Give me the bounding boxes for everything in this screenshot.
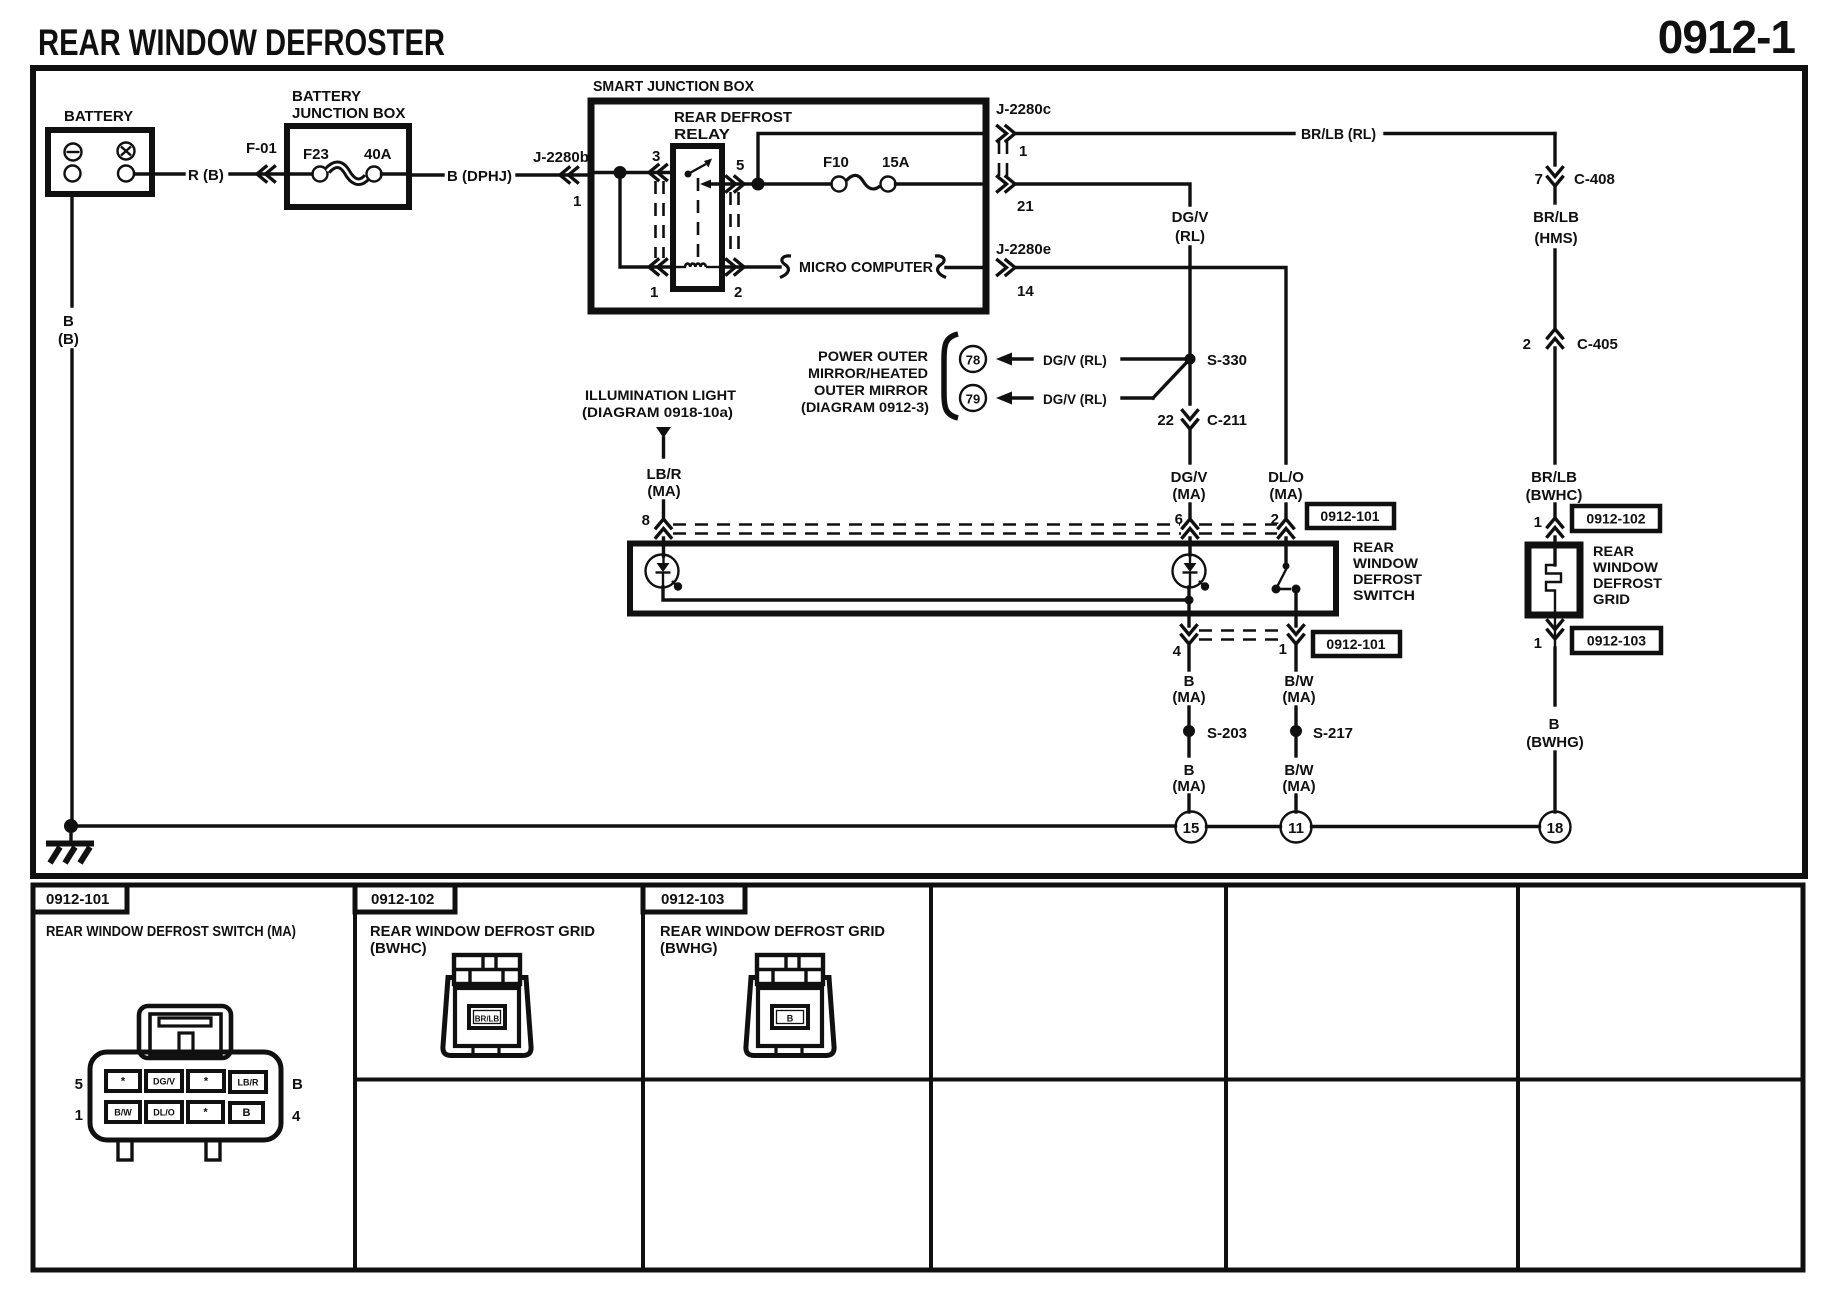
svg-text:1: 1: [1019, 143, 1027, 160]
terminal 79: [960, 385, 986, 411]
svg-text:J-2280e: J-2280e: [996, 241, 1051, 258]
svg-text:B/W: B/W: [1284, 673, 1314, 690]
wire battery positive to R (B): [135, 172, 185, 175]
connector C-405 pin 2: [1548, 329, 1563, 348]
switch pin 6: [1183, 519, 1198, 538]
svg-text:(MA): (MA): [1282, 689, 1315, 706]
reference tag 0912-101 bottom: [1313, 632, 1400, 656]
svg-text:15: 15: [1183, 820, 1200, 837]
svg-text:(RL): (RL): [1175, 228, 1205, 245]
svg-text:B/W: B/W: [1284, 762, 1314, 779]
connector table frame: [33, 885, 1803, 1270]
svg-text:POWER OUTER: POWER OUTER: [818, 349, 928, 364]
svg-text:B: B: [63, 313, 74, 330]
junction node: [614, 166, 627, 179]
svg-text:F23: F23: [303, 146, 329, 163]
svg-text:S-330: S-330: [1207, 352, 1247, 369]
connector drawing 0912-102 grid BWHC: [443, 978, 531, 1056]
wire pin5 to fuse F10: [758, 182, 831, 185]
svg-text:1: 1: [573, 193, 581, 210]
wire DL/O from J-2280e: [1015, 268, 1286, 464]
lamp1 wire to bus: [663, 587, 1189, 600]
svg-text:C-408: C-408: [1574, 171, 1615, 188]
svg-text:GRID: GRID: [1593, 592, 1630, 607]
svg-text:REAR: REAR: [1593, 544, 1634, 559]
svg-text:0912-103: 0912-103: [1587, 633, 1646, 649]
svg-text:1: 1: [1534, 635, 1542, 652]
svg-text:0912-101: 0912-101: [1320, 508, 1379, 524]
reference tag 0912-103: [1572, 628, 1661, 653]
table tag 0912-101: [33, 885, 127, 912]
wire DG/V (MA): [1188, 429, 1191, 463]
svg-text:DEFROST: DEFROST: [1593, 576, 1663, 591]
svg-text:0912-102: 0912-102: [371, 891, 434, 908]
svg-text:S-217: S-217: [1313, 725, 1353, 742]
connector drawing 0912-101 switch: [90, 1006, 281, 1160]
svg-text:(MA): (MA): [1269, 486, 1302, 503]
svg-text:DEFROST: DEFROST: [1353, 572, 1423, 587]
wire B (DPHJ) to smart junction box: [409, 173, 443, 176]
rear window defrost switch box: [630, 544, 1336, 614]
wire BR/LB (BWHC): [1553, 348, 1556, 463]
svg-text:J-2280b: J-2280b: [533, 149, 589, 166]
relay dashed actuator link: [697, 178, 700, 262]
svg-text:REAR WINDOW DEFROST GRID: REAR WINDOW DEFROST GRID: [370, 923, 595, 940]
svg-text:5: 5: [736, 157, 744, 174]
wire SJB entry to relay pin 3: [591, 171, 673, 174]
svg-text:F10: F10: [823, 154, 849, 171]
svg-text:B: B: [292, 1076, 303, 1093]
svg-text:*: *: [204, 1076, 209, 1088]
svg-text:21: 21: [1017, 198, 1034, 215]
svg-text:MIRROR/HEATED: MIRROR/HEATED: [808, 366, 928, 381]
wire B (BWHG): [1553, 648, 1556, 705]
ground junction: [64, 819, 78, 833]
svg-text:REAR DEFROST: REAR DEFROST: [674, 109, 792, 126]
pin 5: [722, 182, 758, 185]
pin 1: [649, 260, 667, 275]
svg-text:(BWHC): (BWHC): [370, 940, 427, 957]
svg-text:J-2280c: J-2280c: [996, 101, 1051, 118]
svg-text:LB/R: LB/R: [238, 1078, 259, 1088]
svg-text:F-01: F-01: [246, 140, 277, 157]
table tag 0912-102: [355, 885, 455, 912]
svg-text:8: 8: [642, 512, 650, 529]
connector dashes pin3-pin1: [656, 181, 664, 258]
relay switch contact: [685, 171, 692, 178]
svg-text:1: 1: [1534, 514, 1542, 531]
splice S-330: [1185, 354, 1196, 365]
svg-text:BATTERY: BATTERY: [64, 108, 133, 125]
svg-text:REAR WINDOW DEFROST GRID: REAR WINDOW DEFROST GRID: [660, 923, 885, 940]
svg-text:R (B): R (B): [188, 167, 224, 184]
connector dashes pin5-pin2: [731, 192, 739, 258]
svg-text:79: 79: [966, 392, 980, 407]
svg-text:OUTER MIRROR: OUTER MIRROR: [814, 383, 928, 398]
wire to J-2280c branch: [752, 178, 765, 191]
svg-text:(BWHG): (BWHG): [660, 940, 717, 957]
bracket: [944, 334, 958, 418]
pin cavity DL/O: [146, 1102, 182, 1122]
splice S-203: [1183, 725, 1195, 737]
svg-text:MICRO COMPUTER: MICRO COMPUTER: [799, 259, 933, 276]
svg-text:78: 78: [966, 353, 980, 368]
svg-text:0912-102: 0912-102: [1586, 511, 1645, 527]
svg-text:(BWHC): (BWHC): [1526, 487, 1583, 504]
micro computer: [780, 256, 791, 278]
svg-text:WINDOW: WINDOW: [1353, 556, 1418, 571]
defrost switch contact: [1283, 563, 1290, 570]
ground terminal 11: [1281, 812, 1312, 843]
pin cavity LB/R: [230, 1072, 266, 1092]
svg-text:B (DPHJ): B (DPHJ): [447, 168, 512, 185]
svg-text:REAR WINDOW DEFROST SWITCH (MA: REAR WINDOW DEFROST SWITCH (MA): [46, 923, 296, 940]
svg-text:RELAY: RELAY: [674, 126, 730, 143]
arrow 78: [996, 353, 1012, 366]
svg-text:DG/V: DG/V: [1171, 469, 1208, 486]
svg-text:B: B: [243, 1107, 251, 1119]
svg-text:LB/R: LB/R: [647, 466, 682, 483]
svg-text:(MA): (MA): [1172, 486, 1205, 503]
pin cavity B: [230, 1103, 263, 1122]
svg-text:C-211: C-211: [1207, 412, 1247, 429]
svg-text:18: 18: [1547, 820, 1564, 837]
svg-text:11: 11: [1288, 820, 1304, 837]
switch pin 2: [1279, 519, 1294, 538]
grid resistor element: [1546, 565, 1561, 648]
svg-text:0912-103: 0912-103: [661, 891, 724, 908]
wire BR/LB (HMS): [1553, 186, 1556, 203]
svg-text:WINDOW: WINDOW: [1593, 560, 1658, 575]
svg-text:SWITCH: SWITCH: [1353, 588, 1415, 603]
svg-text:(MA): (MA): [647, 483, 680, 500]
connector dashes 1-21: [999, 141, 1007, 176]
svg-text:REAR: REAR: [1353, 540, 1394, 555]
wire B/W (MA): [1294, 644, 1297, 670]
svg-text:DL/O: DL/O: [153, 1108, 175, 1118]
svg-text:2: 2: [1523, 336, 1531, 353]
svg-text:(MA): (MA): [1282, 778, 1315, 795]
SJB exit pin 21: [998, 177, 1016, 192]
arrow 79: [996, 392, 1012, 405]
terminal 78: [960, 346, 986, 372]
svg-text:5: 5: [75, 1076, 83, 1093]
ground bus wire: [71, 824, 1540, 828]
svg-text:4: 4: [292, 1108, 301, 1125]
svg-text:DG/V: DG/V: [153, 1077, 175, 1087]
svg-text:B: B: [1184, 762, 1195, 779]
svg-text:7: 7: [1535, 171, 1543, 188]
svg-text:REAR WINDOW DEFROSTER: REAR WINDOW DEFROSTER: [38, 22, 445, 63]
connector dashes above switch 0912-101: [673, 525, 1277, 534]
pin cavity B/W: [106, 1102, 140, 1122]
svg-text:0912-101: 0912-101: [1326, 636, 1385, 652]
svg-text:BR/LB: BR/LB: [475, 1015, 500, 1024]
relay pin 5 contact arrow: [700, 180, 711, 189]
svg-text:(HMS): (HMS): [1534, 230, 1577, 247]
svg-text:0912-1: 0912-1: [1658, 11, 1796, 63]
pin 3: [649, 165, 667, 180]
wire BR/LB (RL): [1015, 132, 1294, 135]
svg-text:14: 14: [1017, 283, 1034, 300]
switch output wire to pin 1: [1294, 589, 1297, 626]
svg-text:B: B: [1184, 673, 1195, 690]
connector dashes below switch 0912-101: [1199, 631, 1287, 640]
table tag 0912-103: [643, 885, 745, 912]
connector drawing 0912-103 grid BWHG: [746, 978, 834, 1056]
rear window defrost grid box: [1553, 537, 1556, 565]
ground terminal 15: [1176, 812, 1207, 843]
svg-text:BR/LB: BR/LB: [1531, 469, 1577, 486]
wire R (B) to battery junction box: [230, 172, 287, 175]
ground symbol: [69, 826, 72, 842]
reference tag 0912-102: [1572, 506, 1660, 531]
splice S-217: [1290, 725, 1302, 737]
svg-text:*: *: [203, 1107, 208, 1119]
svg-text:(DIAGRAM 0918-10a): (DIAGRAM 0918-10a): [582, 405, 733, 420]
lamp2 junction: [1185, 596, 1194, 605]
svg-text:0912-101: 0912-101: [46, 891, 109, 908]
svg-text:JUNCTION BOX: JUNCTION BOX: [292, 105, 405, 122]
svg-text:C-405: C-405: [1577, 336, 1618, 353]
wire B (MA): [1187, 644, 1190, 670]
svg-text:SMART JUNCTION BOX: SMART JUNCTION BOX: [593, 78, 754, 95]
pin cavity DG/V: [146, 1071, 182, 1091]
svg-text:6: 6: [1175, 511, 1183, 528]
switch pin 4: [1182, 626, 1197, 645]
grid pin 1 bottom: [1548, 621, 1563, 640]
svg-text:BR/LB: BR/LB: [1533, 209, 1579, 226]
wire DG/V (RL) from pin 21: [1015, 184, 1190, 205]
relay coil wire from junction to pin 1: [620, 173, 673, 268]
main schematic frame: [33, 68, 1805, 876]
svg-text:1: 1: [1279, 641, 1287, 658]
wire B (B) battery negative: [70, 196, 73, 306]
svg-text:DL/O: DL/O: [1268, 469, 1304, 486]
svg-text:4: 4: [1173, 643, 1182, 660]
relay coil: [673, 266, 686, 268]
svg-text:B/W: B/W: [114, 1108, 132, 1118]
ground terminal 18: [1540, 812, 1571, 843]
svg-text:B: B: [787, 1014, 794, 1024]
pin cavity *: [106, 1071, 140, 1091]
svg-text:40A: 40A: [364, 146, 392, 163]
svg-text:22: 22: [1157, 412, 1174, 429]
illumination lamp 1: [646, 555, 679, 588]
svg-text:2: 2: [734, 284, 742, 301]
svg-text:3: 3: [652, 148, 660, 165]
svg-text:S-203: S-203: [1207, 725, 1247, 742]
svg-text:(B): (B): [58, 331, 79, 348]
svg-text:BATTERY: BATTERY: [292, 88, 361, 105]
illumination lamp 2: [1173, 555, 1206, 588]
switch pin 1: [1289, 626, 1304, 645]
svg-text:*: *: [121, 1076, 126, 1088]
reference tag 0912-101 top: [1307, 504, 1394, 528]
pin 2: [722, 265, 780, 268]
connector C-211 pin 22: [1183, 411, 1198, 430]
svg-text:B: B: [1549, 716, 1560, 733]
svg-text:DG/V (RL): DG/V (RL): [1043, 392, 1107, 407]
pin cavity *: [188, 1102, 223, 1122]
svg-text:ILLUMINATION LIGHT: ILLUMINATION LIGHT: [585, 388, 737, 403]
svg-text:1: 1: [75, 1107, 83, 1124]
pin cavity *: [188, 1071, 224, 1091]
svg-text:(DIAGRAM 0912-3): (DIAGRAM 0912-3): [801, 400, 929, 415]
svg-text:(MA): (MA): [1172, 689, 1205, 706]
svg-text:BR/LB (RL): BR/LB (RL): [1301, 126, 1376, 143]
switch grid pin 1: [1548, 518, 1563, 537]
svg-text:(MA): (MA): [1172, 778, 1205, 795]
svg-text:(BWHG): (BWHG): [1526, 734, 1583, 751]
svg-text:DG/V (RL): DG/V (RL): [1043, 353, 1107, 368]
svg-text:15A: 15A: [882, 154, 910, 171]
svg-text:1: 1: [650, 284, 658, 301]
svg-text:DG/V: DG/V: [1172, 209, 1209, 226]
connector C-408 pin 7: [1548, 168, 1563, 187]
switch pin 8: [656, 519, 671, 538]
